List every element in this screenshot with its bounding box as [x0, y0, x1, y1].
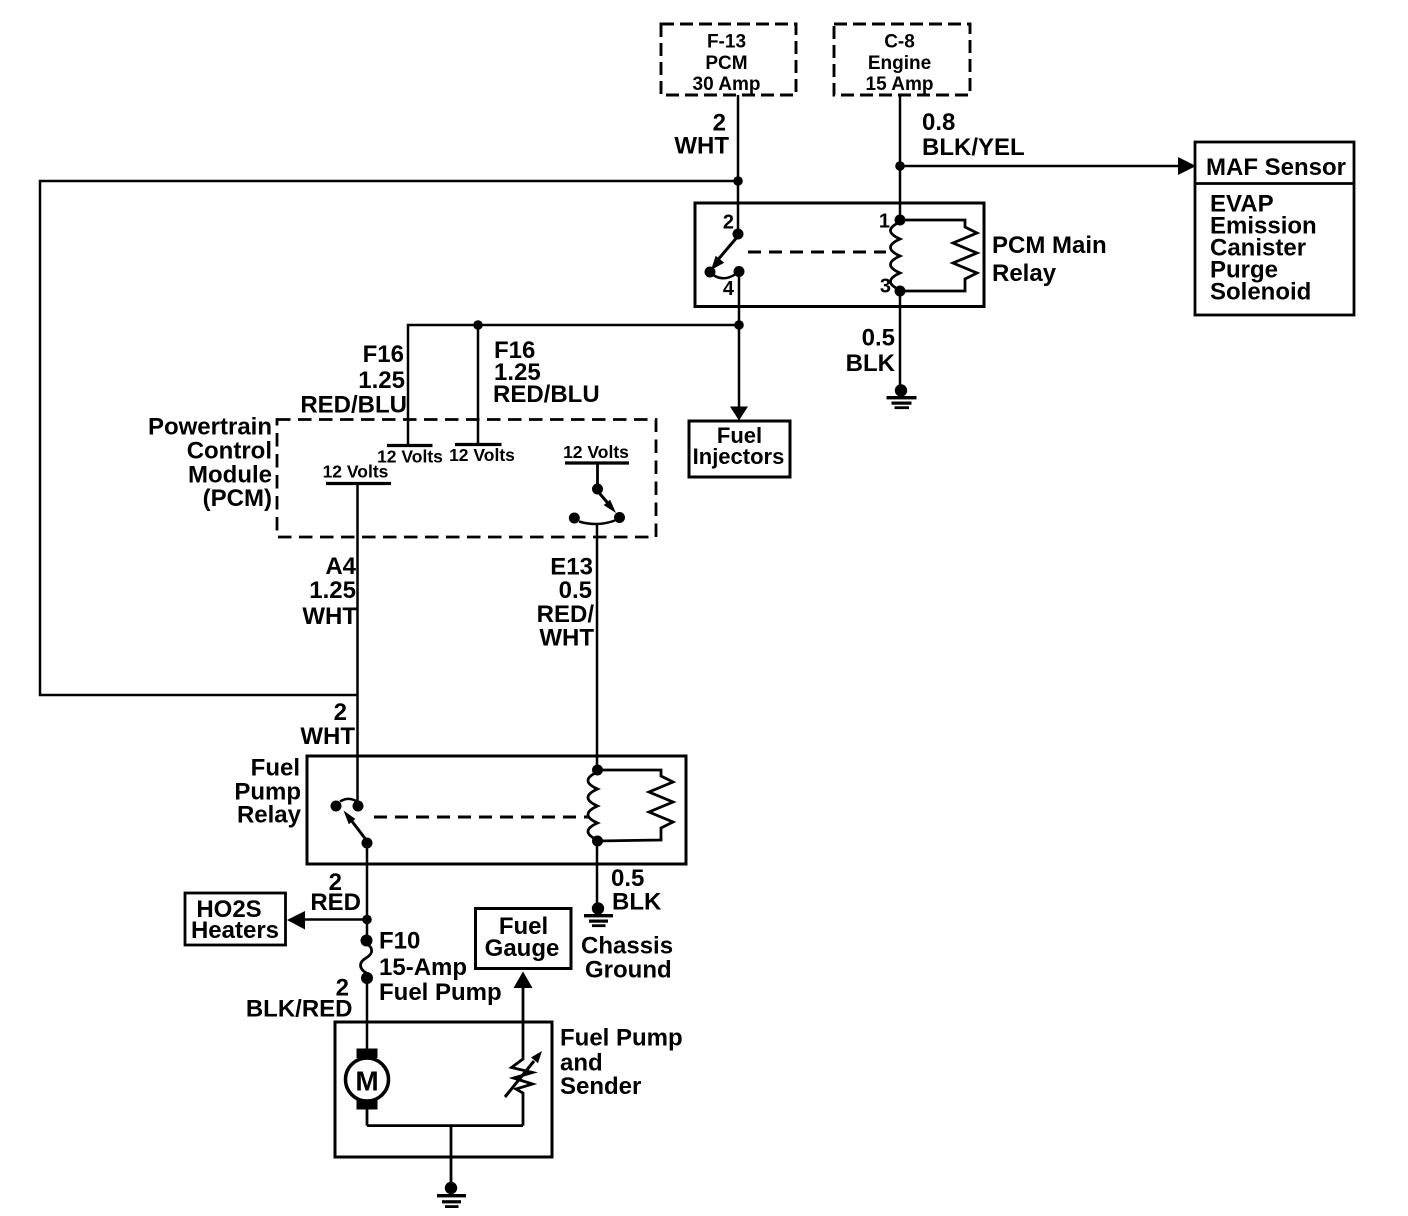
svg-text:1.25: 1.25	[358, 367, 405, 394]
node: F16 second junction	[473, 320, 483, 330]
PCM dashed box	[277, 420, 656, 538]
svg-text:Relay: Relay	[992, 260, 1057, 287]
wire: BLK/YEL feed to MAF sensor	[900, 165, 1181, 168]
svg-text:BLK: BLK	[612, 889, 662, 916]
terminal: 12 Volts (A4)	[323, 462, 391, 484]
svg-text:Heaters: Heaters	[191, 917, 279, 944]
terminal: 12 Volts (F16 right)	[449, 445, 515, 466]
motor M (fuel pump)	[346, 1049, 389, 1110]
node: BLK/YEL junction at C-8 wire	[895, 161, 905, 171]
svg-text:Powertrain: Powertrain	[148, 414, 272, 441]
label: F10 15-Amp Fuel Pump	[379, 928, 502, 1007]
relay coil pins 1/3	[879, 211, 906, 298]
label: A4 1.25 WHT	[302, 553, 357, 630]
svg-text:(PCM): (PCM)	[203, 485, 272, 512]
junction dots	[362, 161, 905, 924]
svg-text:PCM Main: PCM Main	[992, 232, 1107, 259]
arrowhead into fuel gauge	[514, 972, 533, 989]
svg-text:15-Amp: 15-Amp	[379, 954, 467, 981]
label: Fuel Pump and Sender	[560, 1025, 683, 1101]
svg-text:1.25: 1.25	[309, 577, 356, 604]
wire: fuel pump relay coil to chassis ground	[596, 841, 599, 904]
ground: fuel pump and sender	[437, 1182, 466, 1208]
label: 0.5 BLK (chassis ground wire)	[611, 865, 662, 916]
dashed actuation link fuel pump relay	[374, 816, 588, 819]
sender rheostat	[505, 987, 542, 1126]
node: WHT junction at F-13 wire	[733, 176, 743, 186]
svg-text:MAF Sensor: MAF Sensor	[1206, 154, 1346, 181]
svg-text:A4: A4	[325, 553, 356, 580]
relay box: Fuel Pump Relay	[307, 756, 686, 864]
svg-text:F-13: F-13	[707, 32, 746, 53]
fuse F10 symbol	[360, 935, 373, 985]
label: 0.8 BLK/YEL (C-8 wire)	[922, 109, 1025, 161]
svg-text:F10: F10	[379, 928, 420, 955]
switch E13 with 12 Volts terminal	[563, 442, 629, 524]
svg-text:0.8: 0.8	[922, 109, 955, 136]
svg-text:WHT: WHT	[302, 603, 357, 630]
svg-text:PCM: PCM	[705, 53, 747, 74]
svg-text:Sender: Sender	[560, 1073, 641, 1100]
svg-text:15 Amp: 15 Amp	[866, 74, 934, 95]
svg-text:Fuel Pump: Fuel Pump	[560, 1025, 683, 1052]
wire: E13 RED/WHT from PCM down to fuel pump relay coil	[596, 523, 599, 770]
svg-text:Engine: Engine	[868, 53, 931, 74]
svg-text:Gauge: Gauge	[485, 935, 560, 962]
wire: F10 fuse to fuel pump motor	[366, 977, 369, 1049]
label: PCM Main Relay	[992, 232, 1107, 287]
wire: F16 second drop	[477, 325, 480, 444]
wire: relay pin 4 down to fuel injectors	[738, 273, 741, 409]
wire: A4 WHT from PCM down to fuel pump relay	[356, 484, 359, 806]
Fuel Gauge box	[476, 909, 572, 969]
Fuel Pump and Sender box	[335, 1022, 552, 1157]
fuse F-13 PCM 30 Amp	[661, 24, 796, 95]
svg-text:BLK/RED: BLK/RED	[246, 996, 353, 1023]
wire: F-13 fuse down to relay pin 2	[737, 95, 740, 234]
label: F16 1.25 RED/BLU (right)	[493, 337, 600, 408]
label: 0.5 BLK (relay ground wire)	[846, 325, 896, 378]
svg-text:0.5: 0.5	[559, 577, 592, 604]
fuse C-8 Engine 15 Amp	[834, 24, 970, 95]
wire: HO2S heaters branch	[303, 918, 367, 921]
svg-text:Ground: Ground	[585, 957, 672, 984]
fuel pump relay switch	[331, 799, 373, 849]
label: F16 1.25 RED/BLU (left)	[300, 341, 407, 419]
wire: fuel pump box to ground	[450, 1126, 453, 1184]
svg-text:Control: Control	[187, 438, 272, 465]
svg-text:12 Volts: 12 Volts	[323, 462, 389, 482]
wire: internal bottom rail	[367, 1124, 523, 1127]
svg-text:Injectors: Injectors	[693, 444, 785, 469]
wire: C-8 fuse down to relay pin 1	[899, 95, 902, 220]
fuel pump relay internal resistor	[598, 770, 674, 841]
relay box: PCM Main Relay	[695, 203, 984, 307]
svg-text:WHT: WHT	[539, 625, 594, 652]
arrowhead into HO2S heaters	[287, 911, 305, 930]
svg-text:Relay: Relay	[237, 802, 302, 829]
svg-text:RED/BLU: RED/BLU	[493, 381, 600, 408]
label: 2 WHT (F-13 wire)	[674, 110, 729, 160]
svg-text:M: M	[355, 1066, 378, 1097]
svg-text:0.5: 0.5	[862, 325, 895, 352]
wire: fuel pump relay pivot down to F10 fuse	[366, 843, 369, 941]
svg-text:C-8: C-8	[884, 32, 915, 53]
wire: relay pin 3 down to ground	[899, 291, 902, 387]
svg-text:2: 2	[723, 212, 734, 234]
svg-text:12 Volts: 12 Volts	[563, 442, 629, 462]
arrowhead into fuel injectors	[730, 407, 748, 421]
node: F16 junction below relay	[734, 320, 744, 330]
svg-text:12 Volts: 12 Volts	[449, 445, 515, 465]
terminal: 12 Volts (F16 left)	[377, 446, 443, 467]
ground: PCM main relay	[887, 384, 917, 409]
svg-text:F16: F16	[363, 341, 404, 368]
label: Chassis Ground	[581, 933, 673, 984]
relay switch pins 2/4	[705, 212, 745, 301]
svg-text:Solenoid: Solenoid	[1210, 279, 1311, 306]
svg-text:BLK/YEL: BLK/YEL	[922, 134, 1025, 161]
svg-text:WHT: WHT	[300, 723, 355, 750]
svg-text:RED/BLU: RED/BLU	[300, 392, 407, 419]
svg-text:2: 2	[334, 699, 347, 726]
ground: chassis ground	[584, 902, 613, 927]
svg-text:Fuel Pump: Fuel Pump	[379, 979, 502, 1006]
label: 2 WHT (A4 wire lower)	[300, 699, 355, 750]
HO2S Heaters box	[185, 893, 286, 945]
node: RED junction to HO2S heaters	[362, 915, 372, 925]
svg-text:BLK: BLK	[846, 350, 896, 377]
wire: motor to internal bottom rail	[366, 1110, 369, 1126]
dashed actuation link PCM relay	[748, 251, 886, 254]
svg-text:Fuel: Fuel	[251, 755, 300, 782]
svg-text:RED: RED	[310, 889, 361, 916]
label: Fuel Pump Relay	[234, 755, 301, 829]
relay internal resistor	[900, 220, 977, 291]
label: E13 0.5 RED/ WHT	[537, 554, 595, 652]
fuel pump relay coil	[588, 765, 603, 847]
svg-text:1: 1	[879, 211, 890, 233]
svg-text:WHT: WHT	[674, 133, 729, 160]
MAF Sensor box	[1195, 142, 1354, 315]
wire: WHT feed loop from fuse junction around left side down to fuel pump relay	[40, 181, 738, 695]
svg-text:3: 3	[880, 276, 891, 298]
svg-text:30 Amp: 30 Amp	[693, 74, 761, 95]
Fuel Injectors box	[689, 421, 790, 477]
label: Powertrain Control Module (PCM)	[148, 414, 272, 513]
svg-text:4: 4	[723, 278, 735, 300]
label: 2 RED	[310, 869, 361, 916]
svg-text:Chassis: Chassis	[581, 933, 673, 960]
label: 2 BLK/RED	[246, 975, 353, 1023]
arrowhead into MAF sensor	[1178, 157, 1196, 175]
wire: F16 branch horizontal	[408, 325, 739, 445]
